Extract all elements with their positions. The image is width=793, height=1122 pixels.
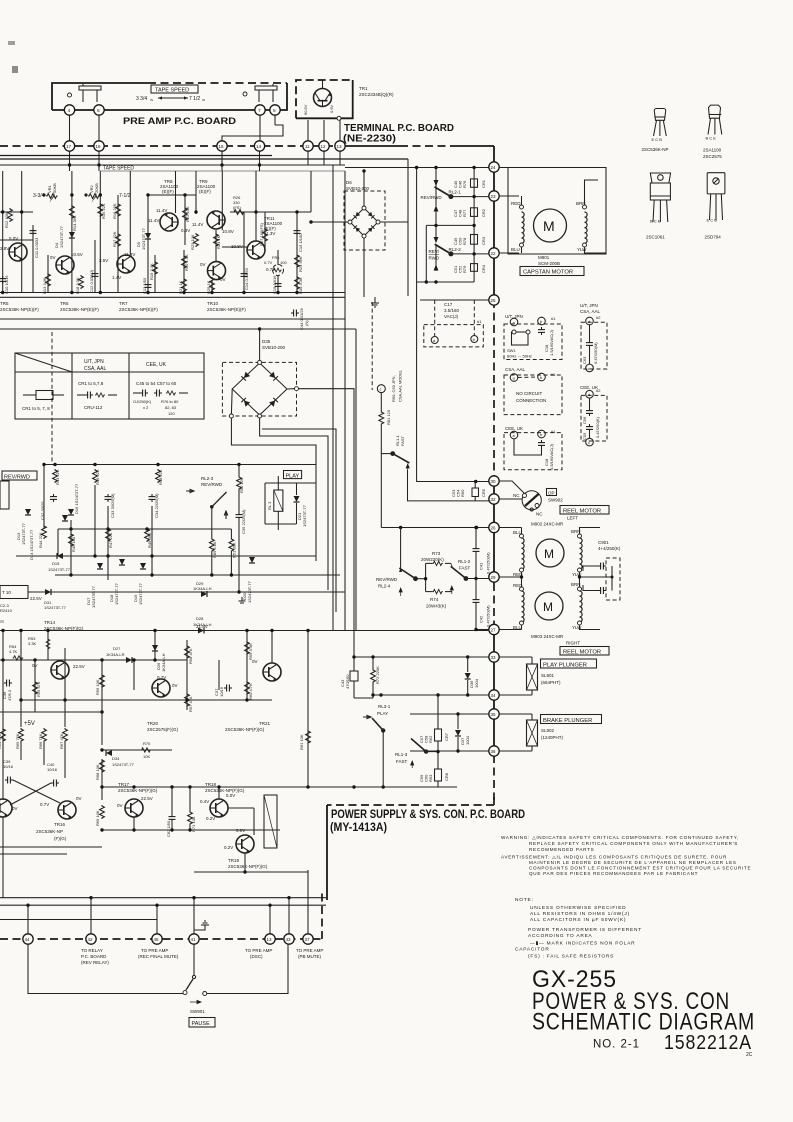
dashed terminal bus <box>0 938 322 940</box>
svg-text:REV/RWD: REV/RWD <box>4 475 30 481</box>
svg-text:(1240PHT): (1240PHT) <box>541 735 564 740</box>
svg-text:(FS) : FAIL SAFE RESISTORS: (FS) : FAIL SAFE RESISTORS <box>528 954 614 960</box>
pre-amp board outline <box>52 83 148 110</box>
svg-text:(FS): (FS) <box>233 205 241 210</box>
svg-text:10K: 10K <box>143 754 150 759</box>
svg-text:CR4: CR4 <box>481 264 486 273</box>
svg-text:0.3V: 0.3V <box>181 228 190 233</box>
svg-text:CEE, UK: CEE, UK <box>146 362 167 368</box>
terminal 14 <box>254 141 264 151</box>
resistor R20 <box>182 255 187 269</box>
wires M902 <box>499 527 522 529</box>
svg-text:2SC2334B(Q)(R): 2SC2334B(Q)(R) <box>359 92 394 97</box>
svg-text:CEE, UK: CEE, UK <box>505 426 523 431</box>
svg-text:0V: 0V <box>200 262 206 267</box>
transistor TR9 <box>207 211 225 229</box>
svg-text:0V: 0V <box>220 277 226 282</box>
capacitor C41 <box>473 546 480 554</box>
svg-text:3.3K: 3.3K <box>28 641 37 646</box>
svg-text:RL2-1: RL2-1 <box>449 190 462 195</box>
svg-text:(E)(F): (E)(F) <box>199 189 211 194</box>
svg-text:BRAKE PLUNGER: BRAKE PLUNGER <box>543 718 592 724</box>
wires from preamp terminals down to bus <box>69 115 71 141</box>
svg-text:R79: R79 <box>462 265 467 273</box>
svg-text:c: c <box>380 387 382 392</box>
svg-text:CAPACITOR: CAPACITOR <box>515 947 550 953</box>
svg-text:R60: R60 <box>460 489 465 497</box>
svg-text:R43 22K: R43 22K <box>55 469 60 485</box>
svg-text:+5V: +5V <box>24 721 35 727</box>
REEL MOTOR RIGHT label <box>560 647 609 656</box>
svg-text:R59 3.3K: R59 3.3K <box>248 643 253 660</box>
svg-text:M: M <box>543 600 553 614</box>
svg-text:NC: NC <box>513 493 520 498</box>
svg-text:0.2V: 0.2V <box>206 816 215 821</box>
svg-text:0.47/250(K): 0.47/250(K) <box>595 416 600 438</box>
svg-text:120: 120 <box>168 411 175 416</box>
resistor R55 <box>33 681 38 695</box>
svg-text:CR2: CR2 <box>481 208 486 217</box>
M903 left coil <box>520 587 524 591</box>
svg-text:QUE PAR DES PIECES RECOMMANDEE: QUE PAR DES PIECES RECOMMANDEES PAR LE F… <box>529 871 698 876</box>
wires from terminal board to bus terminals 11 12 13 <box>307 120 309 141</box>
svg-text:C32 33/25: C32 33/25 <box>40 501 45 520</box>
svg-text:NOTE:: NOTE: <box>515 897 534 903</box>
terminal 16 <box>94 141 104 151</box>
terminal 30 <box>489 476 499 486</box>
transistor TR11 <box>247 241 265 259</box>
svg-text:#1: #1 <box>551 316 556 321</box>
transistor TR16 <box>58 801 76 819</box>
supply wire <box>44 464 316 466</box>
resistor R19 <box>153 261 158 275</box>
svg-text:R22 10K: R22 10K <box>185 206 190 222</box>
svg-text:REV/RWD: REV/RWD <box>421 195 443 200</box>
terminal 22 <box>489 248 499 258</box>
svg-text:33: 33 <box>491 655 497 660</box>
svg-text:10/16: 10/16 <box>3 764 14 769</box>
svg-text:47/6.3: 47/6.3 <box>7 689 12 701</box>
svg-text:2SC536K-NP(F)(G): 2SC536K-NP(F)(G) <box>225 727 265 732</box>
svg-text:SCM-200B: SCM-200B <box>538 261 560 266</box>
svg-text:RL1-3: RL1-3 <box>395 752 408 757</box>
D6 wires <box>363 171 365 206</box>
svg-text:5.0V: 5.0V <box>226 793 235 798</box>
capacitor C42 <box>473 597 480 605</box>
svg-text:41: 41 <box>191 937 197 942</box>
svg-text:PRE AMP P.C. BOARD: PRE AMP P.C. BOARD <box>123 116 237 126</box>
capacitor C35 <box>236 512 243 520</box>
bus to right column <box>345 145 400 147</box>
terminal 5 <box>270 105 280 115</box>
svg-text:(F)(G): (F)(G) <box>54 836 67 841</box>
resistor R57 <box>185 693 190 707</box>
wires TR17/TR18 region <box>133 817 135 830</box>
svg-text:(REV RELAY): (REV RELAY) <box>81 960 109 965</box>
terminal 23 <box>489 191 499 201</box>
svg-text:R73: R73 <box>432 551 441 556</box>
resistor R29 <box>295 254 300 268</box>
svg-text:12: 12 <box>321 144 327 149</box>
transistor TR10 <box>208 262 226 280</box>
svg-text:60.5V: 60.5V <box>303 104 308 115</box>
terminal 29 <box>489 572 499 582</box>
main vertical bus <box>493 146 495 300</box>
relay wires above capstan <box>407 222 409 296</box>
sweep wire 3 <box>262 429 336 612</box>
capacitor C62 <box>169 814 176 822</box>
svg-text:PLAY: PLAY <box>377 711 388 716</box>
parts table <box>15 353 204 419</box>
M902 left coil <box>520 534 524 538</box>
svg-text:0.4V: 0.4V <box>200 799 209 804</box>
svg-text:R15 22K: R15 22K <box>101 203 106 219</box>
svg-text:OP: OP <box>548 490 555 495</box>
svg-text:20W220(K): 20W220(K) <box>421 557 444 562</box>
resistor CR8 <box>435 769 442 781</box>
resistor R46 <box>93 469 98 483</box>
svg-text:RL2-2: RL2-2 <box>449 247 462 252</box>
svg-text:AVERTISSEMENT: △IL INDIQU LES: AVERTISSEMENT: △IL INDIQU LES COMPOSANTS… <box>501 855 727 860</box>
svg-text:13: 13 <box>337 144 343 149</box>
resistor R50 <box>237 476 242 490</box>
svg-text:CSA, AAL: CSA, AAL <box>505 367 526 372</box>
svg-text:TR17: TR17 <box>118 782 130 787</box>
svg-text:CR8: CR8 <box>444 772 449 781</box>
svg-text:2SC536K-NP(F)(G): 2SC536K-NP(F)(G) <box>44 626 84 631</box>
transistor TR17 <box>125 799 143 817</box>
svg-text:C56: C56 <box>582 416 587 424</box>
svg-text:VAC(J): VAC(J) <box>444 314 459 319</box>
diode D37 <box>455 730 461 736</box>
svg-text:#2: #2 <box>596 315 601 320</box>
svg-text:2.8V: 2.8V <box>0 246 9 251</box>
resistor R65 <box>19 728 24 742</box>
resistor R60 <box>245 681 250 695</box>
svg-text:SW1: SW1 <box>507 348 516 353</box>
rotary switch SW902 <box>522 491 541 510</box>
diode D27 <box>126 657 132 663</box>
terminal 26 <box>489 522 499 532</box>
svg-text:1004: 1004 <box>465 735 470 745</box>
svg-text:1S2473T-77: 1S2473T-77 <box>91 585 96 608</box>
svg-text:R2410: R2410 <box>0 608 13 613</box>
tape speed switch left <box>68 93 72 97</box>
svg-text:CSA, AAL: CSA, AAL <box>84 366 106 372</box>
svg-text:M901: M901 <box>538 255 550 260</box>
resistor R64 <box>1 728 6 742</box>
svg-text:RL2-3: RL2-3 <box>201 476 214 481</box>
svg-text:C13 1/50: C13 1/50 <box>142 277 147 294</box>
svg-text:1S2473T-77: 1S2473T-77 <box>44 605 67 610</box>
capacitor C32 <box>50 494 57 502</box>
resistor R18 <box>79 275 84 289</box>
sweep wire 1 <box>231 418 316 561</box>
svg-text:11.4V: 11.4V <box>192 222 203 227</box>
svg-text:22.5V: 22.5V <box>30 596 42 601</box>
svg-text:CSA, AAL: CSA, AAL <box>580 309 601 314</box>
relay contact box bottom <box>0 586 28 599</box>
rails <box>0 630 489 632</box>
svg-text:ALL RESISTORS IN OHMS 1/4W(J): ALL RESISTORS IN OHMS 1/4W(J) <box>530 911 630 917</box>
resistor R59 <box>245 641 250 655</box>
svg-text:CR1: CR1 <box>481 179 486 188</box>
resistor R58 <box>185 645 190 659</box>
cross coupling wires <box>2 742 4 776</box>
fuse resistor FR1 <box>273 265 284 276</box>
svg-text:R29 56K: R29 56K <box>298 256 303 272</box>
svg-text:R56 10K: R56 10K <box>95 679 100 695</box>
svg-text:R48 22K: R48 22K <box>158 469 163 485</box>
svg-text:3 3/4: 3 3/4 <box>136 96 147 102</box>
resistor R44 <box>42 525 47 539</box>
diode D16 <box>68 509 74 515</box>
terminal 25 <box>489 295 499 305</box>
svg-text:470/160: 470/160 <box>345 674 350 689</box>
svg-text:1S2473T-77: 1S2473T-77 <box>247 580 252 603</box>
svg-text:0V: 0V <box>12 806 18 811</box>
svg-text:34: 34 <box>491 693 497 698</box>
capacitor C12 <box>92 271 99 279</box>
svg-text:36: 36 <box>491 749 497 754</box>
svg-text:2SC536K-NP(F)(G): 2SC536K-NP(F)(G) <box>205 788 245 793</box>
svg-text:R19 3.3K: R19 3.3K <box>149 263 154 280</box>
svg-text:C15 10/16: C15 10/16 <box>272 275 277 294</box>
pot VR2 <box>88 193 100 203</box>
resistor R43 <box>53 469 58 483</box>
svg-text:11.3V: 11.3V <box>124 252 135 257</box>
pause switch SW901 <box>193 944 195 975</box>
svg-text:TR10: TR10 <box>207 301 219 306</box>
svg-text:1S2473T-77: 1S2473T-77 <box>114 582 119 605</box>
resistor R72 <box>371 669 376 683</box>
svg-text:REEL MOTOR: REEL MOTOR <box>563 650 601 656</box>
svg-text:21.8V: 21.8V <box>196 624 208 629</box>
svg-text:R67 47K: R67 47K <box>59 733 64 749</box>
svg-text:1S2473T-77: 1S2473T-77 <box>59 225 64 248</box>
relay RL3 <box>274 490 283 511</box>
resistor R25 <box>210 277 215 291</box>
diode D28 <box>198 628 204 634</box>
terminal 7 <box>255 105 265 115</box>
svg-text:TR18: TR18 <box>205 782 217 787</box>
svg-text:2SA1100: 2SA1100 <box>703 148 722 153</box>
svg-text:R77: R77 <box>462 209 467 217</box>
svg-text:REPLACE SAFETY CRITICAL COMPON: REPLACE SAFETY CRITICAL COMPONENTS ONLY … <box>529 841 738 846</box>
terminal 15 <box>217 141 227 151</box>
svg-text:B C E: B C E <box>706 136 717 141</box>
svg-text:(MY-1413A): (MY-1413A) <box>330 820 387 834</box>
terminal 6 <box>94 105 104 115</box>
resistor R61 <box>306 730 311 744</box>
wire bridge top to rail <box>259 329 261 360</box>
svg-text:b: b <box>473 337 476 342</box>
resistor R15 <box>98 203 103 217</box>
tape speed label box <box>151 85 198 93</box>
warning block <box>501 835 751 876</box>
svg-text:0V: 0V <box>50 255 56 260</box>
svg-text:a: a <box>513 320 516 325</box>
capacitor C10 <box>0 276 6 284</box>
svg-text:R51 39K: R51 39K <box>232 542 237 558</box>
svg-text:RL2-4: RL2-4 <box>378 584 391 589</box>
capacitor C34 <box>149 494 156 502</box>
svg-text:R66 75K: R66 75K <box>38 733 43 749</box>
svg-text:IN: IN <box>150 98 153 102</box>
svg-text:16: 16 <box>96 144 102 149</box>
svg-text:ALL CAPACITORS IN µF 50WV(K): ALL CAPACITORS IN µF 50WV(K) <box>530 917 626 923</box>
svg-text:BLU: BLU <box>513 530 522 535</box>
svg-text:GJ/250(K): GJ/250(K) <box>133 399 152 404</box>
resistor CR2 <box>471 208 478 217</box>
svg-text:TO PRE AMP: TO PRE AMP <box>245 948 272 953</box>
resistor R21 <box>182 278 187 292</box>
capstan left coil <box>520 205 524 209</box>
resistor CR3 <box>471 235 478 245</box>
svg-text:NO CIRCUIT: NO CIRCUIT <box>516 391 542 396</box>
svg-text:R49 39K: R49 39K <box>147 532 152 548</box>
svg-text:R69 10K: R69 10K <box>95 810 100 826</box>
transistor TR5 <box>9 243 27 261</box>
svg-text:10/16: 10/16 <box>47 767 58 772</box>
tape speed switch right <box>243 92 247 96</box>
double rail under bus <box>0 155 272 157</box>
svg-text:26: 26 <box>491 526 497 531</box>
svg-text:22.5V: 22.5V <box>141 796 153 801</box>
svg-text:TR19: TR19 <box>228 858 240 863</box>
svg-text:b: b <box>540 319 543 324</box>
svg-text:50KB: 50KB <box>52 183 57 193</box>
svg-text:CSA,AAL MODEL: CSA,AAL MODEL <box>398 369 403 402</box>
svg-text:20W43(K): 20W43(K) <box>426 604 447 609</box>
svg-text:PLAY PLUNGER: PLAY PLUNGER <box>543 663 587 669</box>
resistor R68 <box>100 759 105 773</box>
svg-text:REV/RWD: REV/RWD <box>376 577 398 582</box>
svg-text:C45 to 54 C57 to 60: C45 to 54 C57 to 60 <box>136 381 177 386</box>
svg-text:(N): (N) <box>304 320 309 326</box>
svg-text:15: 15 <box>219 144 225 149</box>
resistor R24 <box>214 233 219 247</box>
svg-text:B C E: B C E <box>650 219 661 224</box>
svg-text:0.6V: 0.6V <box>329 104 334 113</box>
svg-text:R16 22K: R16 22K <box>112 203 117 219</box>
svg-text:a: a <box>513 433 516 438</box>
resistor R30 <box>295 276 300 290</box>
terminal 27 <box>489 624 499 634</box>
capacitor C33 <box>105 494 112 502</box>
svg-text:R64 47K: R64 47K <box>0 733 2 749</box>
svg-text:TERMINAL P.C. BOARD: TERMINAL P.C. BOARD <box>344 123 454 134</box>
svg-text:R81 120: R81 120 <box>386 409 391 425</box>
svg-text:1S2473T-77: 1S2473T-77 <box>112 762 135 767</box>
svg-text:14: 14 <box>256 144 262 149</box>
resistor CR4 <box>471 264 478 272</box>
svg-text:R12 10K: R12 10K <box>4 212 9 228</box>
svg-text:2C: 2C <box>746 1052 753 1058</box>
resistor R70 <box>141 748 151 752</box>
svg-text:C62 1/50: C62 1/50 <box>166 820 171 837</box>
svg-text:0V: 0V <box>117 803 123 808</box>
diode D15 <box>57 553 63 559</box>
rail at 165 <box>0 164 345 166</box>
svg-text:TR20: TR20 <box>147 721 159 726</box>
svg-text:PLAY: PLAY <box>286 473 300 479</box>
svg-text:24: 24 <box>491 165 497 170</box>
svg-text:d: d <box>588 319 590 324</box>
svg-text:TR16: TR16 <box>54 822 66 827</box>
svg-text:U/T, JPN: U/T, JPN <box>84 359 104 365</box>
svg-text:R30 3.3K: R30 3.3K <box>298 277 303 294</box>
svg-text:TR14: TR14 <box>44 620 56 625</box>
svg-text:27: 27 <box>491 628 497 633</box>
svg-text:REV/: REV/ <box>429 249 440 254</box>
svg-text:RL 3: RL 3 <box>267 501 272 510</box>
svg-text:UNLESS OTHERWISE SPECIFIED: UNLESS OTHERWISE SPECIFIED <box>530 905 626 911</box>
diode D34 <box>106 750 112 756</box>
svg-text:C10 10/16: C10 10/16 <box>4 275 9 294</box>
svg-text:a: a <box>433 338 436 343</box>
transistor TR21 <box>263 663 281 681</box>
capacitor C11 <box>30 228 37 236</box>
svg-text:4+4/250(K): 4+4/250(K) <box>598 546 621 551</box>
svg-text:SL902: SL902 <box>541 728 555 733</box>
svg-text:2SC1061: 2SC1061 <box>646 235 665 240</box>
svg-text:REEL MOTOR: REEL MOTOR <box>563 509 601 515</box>
diode D13 <box>25 509 31 515</box>
reel motor M902 <box>536 539 564 567</box>
svg-text:2SD794: 2SD794 <box>705 235 722 240</box>
svg-text:0.47/150(M): 0.47/150(M) <box>593 342 598 364</box>
svg-text:C12 0.033(J): C12 0.033(J) <box>89 269 94 293</box>
resistor R23 <box>194 233 199 247</box>
diode D26 <box>152 645 158 651</box>
terminal 24 <box>489 162 499 172</box>
svg-text:1S2473T-77: 1S2473T-77 <box>21 522 26 545</box>
svg-text:0.2V: 0.2V <box>224 845 233 850</box>
resistor R45 <box>69 533 74 547</box>
svg-text:1S2473T-77: 1S2473T-77 <box>138 582 143 605</box>
svg-text:2SC2575: 2SC2575 <box>703 154 722 159</box>
third rail <box>0 919 157 921</box>
svg-text:0.7V: 0.7V <box>157 675 166 680</box>
svg-text:0.47/150(M): 0.47/150(M) <box>486 552 491 574</box>
diode D19 <box>140 563 146 569</box>
resistor R67 <box>63 728 68 742</box>
svg-text:C42: C42 <box>479 615 484 623</box>
transistor TR14 <box>51 661 69 679</box>
svg-text:R17 22K: R17 22K <box>112 231 117 247</box>
svg-text:R63: R63 <box>428 774 433 782</box>
resistor R74 <box>432 589 442 593</box>
svg-text:R62: R62 <box>428 735 433 743</box>
terminal d <box>377 385 385 393</box>
svg-text:D34: D34 <box>112 756 120 761</box>
diode D17 <box>97 563 103 569</box>
svg-text:20KB: 20KB <box>94 183 99 193</box>
svg-text:b: b <box>540 432 543 437</box>
dashed option vertical <box>371 302 373 390</box>
M903 right coil <box>578 587 582 591</box>
svg-text:x 2: x 2 <box>143 405 149 410</box>
svg-text:C41: C41 <box>479 562 484 570</box>
svg-text:R25 1K: R25 1K <box>206 280 211 294</box>
svg-text:11.4V: 11.4V <box>156 208 167 213</box>
bottom rails <box>0 292 345 294</box>
svg-text:PAUSE: PAUSE <box>192 1021 211 1027</box>
resistor R13 <box>46 273 51 287</box>
wires to capstan coils <box>499 195 519 197</box>
svg-text:CONNECTION: CONNECTION <box>516 398 546 403</box>
